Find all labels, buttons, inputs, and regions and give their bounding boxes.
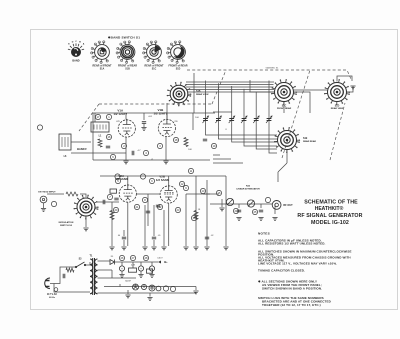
test point 7	[107, 194, 112, 199]
test point 11	[188, 168, 193, 173]
svg-text:1/2 12AT7: 1/2 12AT7	[113, 112, 127, 116]
jack J3 phone	[156, 286, 161, 291]
wire trimmer C15 to switch	[256, 128, 277, 149]
test point power 2	[170, 286, 175, 291]
test point 5	[115, 178, 120, 183]
svg-text:REAR of FRONT: REAR of FRONT	[145, 65, 164, 68]
svg-text:+: +	[140, 267, 142, 271]
test point 27	[130, 255, 135, 260]
ground attenuator 2	[258, 218, 263, 221]
svg-text:TOGETHER (12 TO 12, 17 TO 17,: TOGETHER (12 TO 12, 17 TO 17, ETC.)	[262, 303, 321, 307]
test point 23	[175, 207, 180, 212]
capacitor C31	[122, 237, 126, 239]
wire top bus oscillator	[93, 112, 232, 130]
trimmer capacitor C14	[241, 89, 247, 128]
resistor R3 vertical	[184, 138, 188, 147]
jack J2 phone	[149, 285, 155, 291]
wire heater winding	[120, 284, 166, 287]
wire jack to switch	[47, 194, 86, 197]
ground row2	[151, 247, 156, 250]
wire oscillator section verticals	[213, 155, 243, 163]
wire trimmer C14 to switch	[244, 128, 277, 146]
test point 10	[265, 197, 270, 202]
switch wafer S1A front view	[91, 41, 110, 64]
svg-text:BAND F: BAND F	[77, 147, 87, 151]
wire trimmer C13 to switch	[232, 128, 277, 142]
svg-text:EXT MOD INPUT: EXT MOD INPUT	[38, 192, 56, 194]
ground row2	[142, 247, 147, 250]
svg-text:FRONT of REAR: FRONT of REAR	[118, 65, 137, 68]
test point 20	[113, 207, 118, 212]
switch wafer S1B front view	[116, 41, 135, 64]
svg-text:B+: B+	[164, 260, 168, 264]
switch wafer S1D front view	[167, 41, 186, 64]
wire attenuator	[210, 204, 275, 214]
ground row2	[223, 247, 228, 250]
wire tuning link	[167, 73, 194, 119]
coil L6 shield box	[59, 134, 71, 158]
test point 8	[142, 197, 147, 202]
dashed linkage left segment	[79, 70, 226, 131]
capacitor C23	[156, 205, 160, 207]
svg-text:SCHEMATIC OF THE: SCHEMATIC OF THE	[304, 200, 358, 206]
coil L1 box	[91, 122, 109, 138]
capacitor C40C electrolytic	[149, 266, 154, 277]
ground row2	[193, 247, 198, 250]
resistor R12 horizontal	[66, 192, 78, 196]
svg-text:TUNING CAPACITOR CLOSED.: TUNING CAPACITOR CLOSED.	[258, 269, 305, 273]
svg-text:1/2 6AN8: 1/2 6AN8	[156, 178, 169, 182]
capacitor C20 input	[103, 200, 105, 204]
test point 14	[191, 215, 196, 220]
dashed linkage diagonal to S1E	[282, 70, 345, 160]
ground row2	[161, 247, 166, 250]
rotary switch S1E wafer in schematic	[274, 127, 300, 153]
ground tp15	[219, 208, 224, 211]
test point 24	[233, 208, 238, 213]
svg-text:REAR VIEW: REAR VIEW	[196, 93, 209, 96]
test point 4	[143, 150, 148, 155]
wire trimmer C16 to switch	[269, 128, 277, 153]
resistor R30	[66, 268, 74, 272]
resistor R32 box	[147, 269, 153, 273]
connector RF OUT	[272, 201, 281, 210]
svg-text:117 V AC: 117 V AC	[47, 293, 57, 296]
trimmer capacitor C13	[229, 86, 235, 128]
ground row2	[183, 247, 188, 250]
test point 17	[95, 114, 100, 119]
capacitor C40B electrolytic	[138, 266, 143, 277]
plug 117VAC	[45, 278, 58, 291]
label B plus	[158, 260, 168, 264]
capacitor C36	[259, 210, 263, 212]
ground oscillator cathode	[123, 161, 128, 164]
ground pilot lamp	[125, 295, 130, 298]
resistor R31	[129, 268, 137, 272]
svg-text:+: +	[151, 267, 153, 271]
test point power	[163, 286, 168, 291]
svg-text:REAR of FRONT: REAR of FRONT	[93, 65, 112, 68]
test point 15	[216, 190, 221, 195]
capacitor C38 line	[63, 274, 65, 278]
capacitor C22	[114, 198, 118, 200]
ground heater mid	[147, 298, 152, 301]
test point 26	[119, 255, 124, 260]
trimmer capacitor C15	[253, 92, 259, 128]
diode D1	[110, 260, 115, 265]
svg-text:FRONT of REAR: FRONT of REAR	[169, 65, 188, 68]
ground oscillator plate rail	[163, 161, 168, 164]
svg-text:RF SIGNAL GENERATOR: RF SIGNAL GENERATOR	[297, 213, 362, 219]
ground jack J1	[41, 203, 46, 211]
rotary switch S1B wafer in schematic	[167, 82, 192, 107]
svg-text:S1A: S1A	[100, 67, 105, 70]
jack J1 external modulation input	[40, 196, 47, 203]
svg-text:HEATHKIT®: HEATHKIT®	[315, 205, 344, 212]
wire S2 bottom	[85, 216, 87, 227]
wire transformer secondary	[98, 261, 197, 293]
test point 2	[121, 143, 126, 148]
trimmer capacitor C11	[203, 81, 209, 129]
svg-text:LINEAR ATTENUATOR: LINEAR ATTENUATOR	[236, 188, 260, 191]
wire S1C to S1D link	[294, 76, 352, 90]
ground S2	[83, 228, 88, 231]
test point 16	[106, 134, 111, 139]
wire band fan horizontals	[186, 82, 275, 92]
resistor R1 vertical under L1	[98, 139, 102, 147]
svg-text:REAR REAR: REAR REAR	[303, 140, 316, 143]
wire S1C connections	[250, 80, 310, 113]
ground row2	[121, 247, 126, 250]
wire power primary	[54, 262, 90, 292]
wire trimmer C12 to switch	[218, 128, 277, 139]
svg-text:+: +	[121, 267, 123, 271]
capacitor C30	[146, 211, 150, 213]
svg-text:140 V: 140 V	[157, 258, 163, 260]
tube V2B triode section	[156, 175, 177, 203]
test point V2A top	[115, 174, 120, 179]
capacitor C40A electrolytic	[119, 266, 124, 277]
test point 22	[157, 204, 162, 209]
trimmer capacitor C12	[215, 83, 221, 128]
ground heater	[193, 291, 198, 294]
svg-text:60 Hz: 60 Hz	[49, 297, 56, 299]
test point 6	[149, 178, 154, 183]
test point 18	[173, 137, 178, 142]
ground row2	[109, 247, 114, 250]
test point 19	[211, 143, 216, 148]
capacitor C10 series	[132, 150, 141, 155]
band knob	[68, 41, 85, 63]
svg-text:ALL RESISTORS 1/2 WATT UNLESS: ALL RESISTORS 1/2 WATT UNLESS NOTED.	[258, 242, 326, 246]
svg-text:6.3 V: 6.3 V	[125, 281, 131, 283]
svg-text:SWITCH SHOWN IN BAND A POSITIO: SWITCH SHOWN IN BAND A POSITION.	[262, 287, 322, 291]
test point 1	[106, 114, 111, 119]
potentiometer R22	[226, 198, 233, 205]
svg-text:MODEL IG-102: MODEL IG-102	[311, 220, 349, 226]
svg-text:RF OUT: RF OUT	[283, 204, 293, 207]
tube V1A triode	[113, 109, 135, 137]
svg-text:S1B: S1B	[125, 68, 130, 70]
test point 12	[179, 181, 184, 186]
wire oscillator mid	[71, 113, 210, 160]
test point 3	[157, 143, 162, 148]
wire heater drop	[128, 287, 196, 297]
transformer T1	[90, 255, 98, 296]
svg-text:S1D: S1D	[176, 68, 181, 70]
switch S3 power	[75, 259, 86, 269]
ground row2	[204, 247, 209, 250]
test point 25	[252, 209, 257, 214]
wire row2 bus	[97, 176, 226, 246]
capacitor C35	[237, 210, 241, 212]
wire tp15 drop	[203, 194, 222, 207]
svg-text:✱BAND SWITCH S1: ✱BAND SWITCH S1	[108, 36, 140, 40]
test point 28	[143, 255, 148, 260]
capacitor C2 under L1	[106, 146, 110, 148]
trimmer capacitor C16	[266, 81, 272, 129]
rotary switch S2 modulation	[74, 195, 99, 220]
wire row2 extra verticals	[124, 205, 164, 246]
capacitor C9	[203, 139, 207, 141]
dashed shaft linkage line	[187, 70, 351, 79]
svg-text:S1C: S1C	[152, 68, 157, 70]
wire B+ rail	[115, 262, 159, 268]
potentiometer R23	[247, 200, 254, 207]
tube V1B triode	[154, 108, 176, 136]
svg-text:SWITCH S2: SWITCH S2	[60, 225, 73, 227]
svg-text:GANGED S1: GANGED S1	[266, 67, 280, 70]
test point 9	[183, 185, 188, 190]
meter lamp V symbol	[141, 284, 146, 289]
ground attenuator 1	[236, 218, 241, 221]
test point osc grid	[110, 154, 115, 159]
svg-text:REAR VIEW: REAR VIEW	[331, 107, 344, 110]
rotary switch S1C wafer in schematic	[271, 79, 297, 105]
ground attenuator 3	[272, 218, 277, 221]
tube V2A pentode section	[115, 174, 136, 202]
test point chassis	[37, 125, 42, 130]
svg-text:2.2K: 2.2K	[131, 265, 136, 267]
wire S1E output drop	[278, 150, 287, 182]
test point 21	[134, 204, 139, 209]
pilot lamp PL1	[133, 284, 139, 290]
svg-text:S1E: S1E	[303, 138, 308, 140]
resistor R16 vertical	[194, 211, 198, 220]
capacitor C33	[205, 237, 209, 239]
capacitor C32	[152, 237, 156, 239]
wire trimmer C11 to switch	[206, 128, 278, 135]
test point 13	[200, 188, 205, 193]
coupling box C21	[110, 189, 117, 193]
ground S1D	[350, 86, 355, 89]
svg-text:LINE VOLTAGE 117 V., VOLTAGES: LINE VOLTAGE 117 V., VOLTAGES MAY VARY ±…	[258, 262, 337, 266]
switch wafer S1C front view	[143, 41, 162, 64]
border frame	[31, 30, 398, 310]
test point mid bus	[140, 174, 145, 179]
capacitor C7 trimmer to ground	[141, 122, 146, 131]
resistor R15 vertical	[110, 211, 114, 220]
rotary switch S1D wafer in schematic	[324, 79, 350, 105]
svg-text:MODULATION: MODULATION	[59, 221, 74, 224]
svg-text:1/2 12AT7: 1/2 12AT7	[154, 112, 168, 116]
svg-text:BAND: BAND	[72, 60, 79, 63]
test point S2	[51, 201, 56, 206]
svg-text:NOTES: NOTES	[258, 232, 270, 236]
wire S1D terminal	[347, 86, 353, 92]
